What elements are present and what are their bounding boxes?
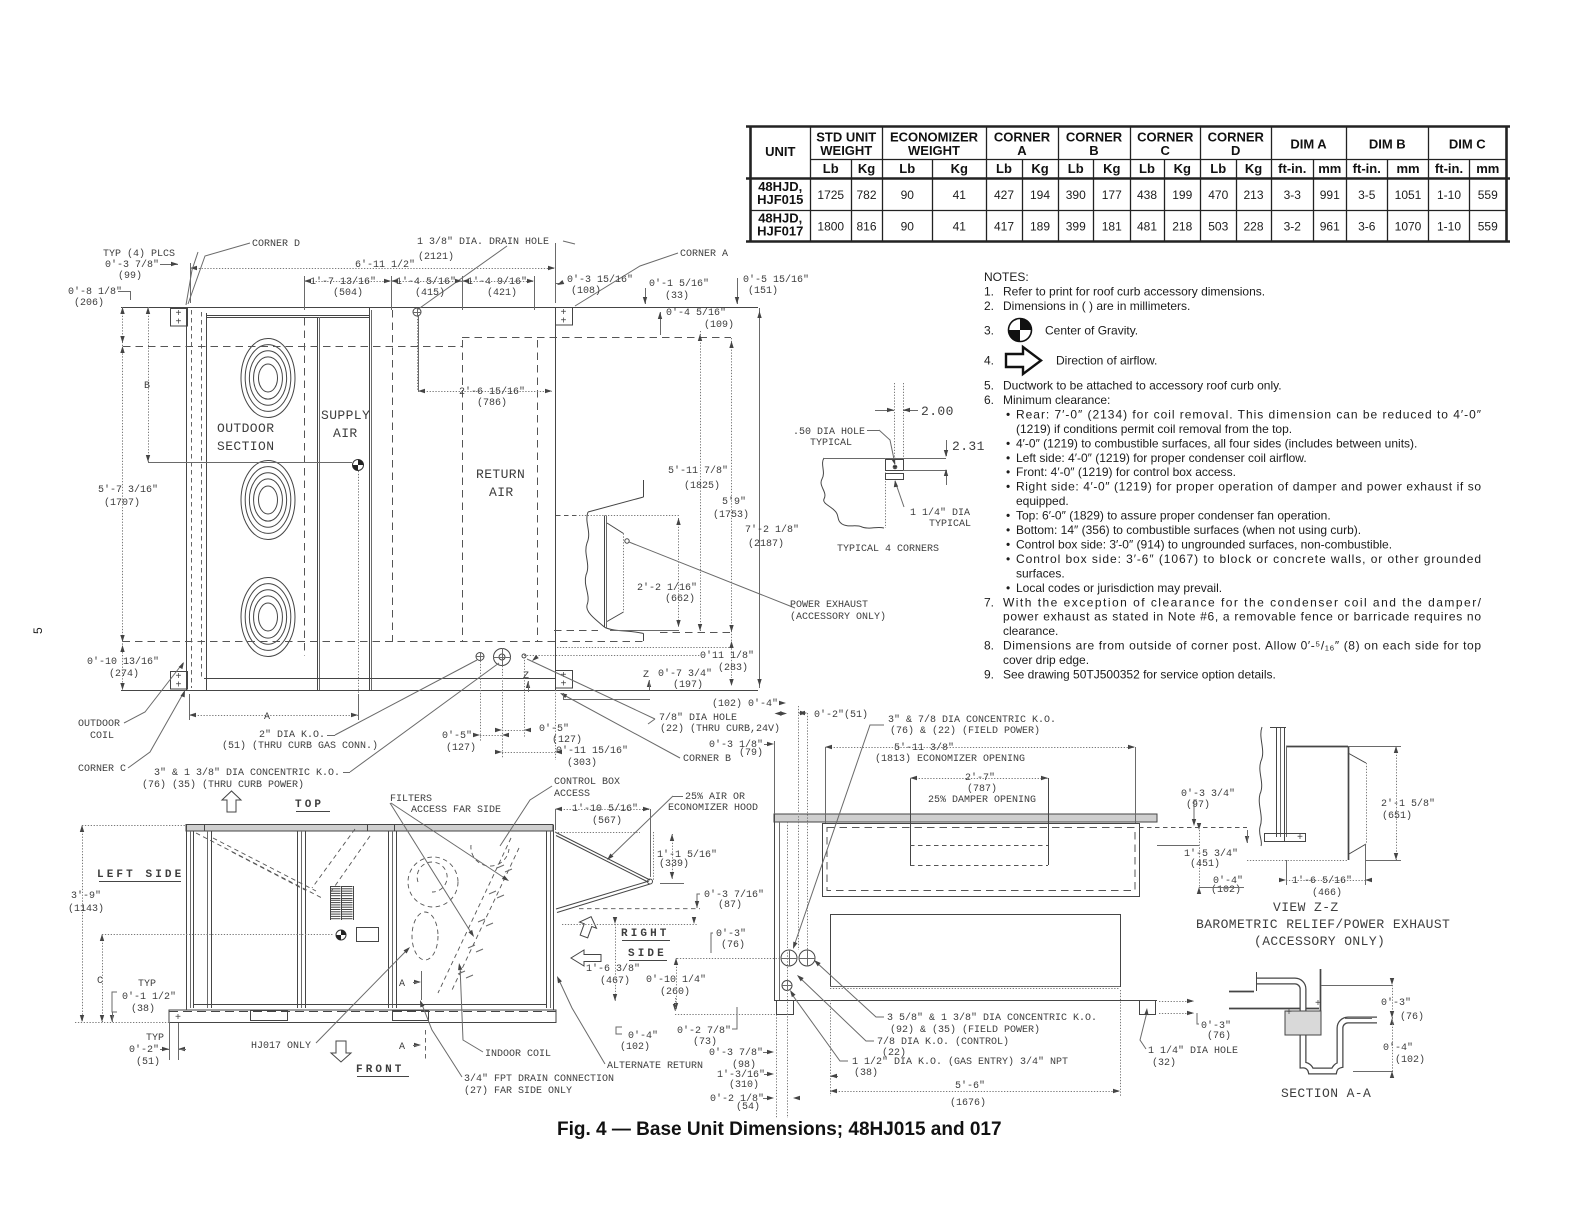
- svg-text:RIGHT: RIGHT: [621, 928, 670, 940]
- svg-text:559: 559: [1478, 188, 1498, 202]
- svg-text:0′-8 1/8″: 0′-8 1/8″: [68, 286, 122, 298]
- svg-text:(662): (662): [665, 593, 695, 605]
- svg-text:(339): (339): [659, 858, 689, 870]
- svg-text:(51) (THRU CURB GAS CONN.): (51) (THRU CURB GAS CONN.): [222, 740, 378, 752]
- svg-text:5′-7 3/16″: 5′-7 3/16″: [98, 484, 158, 496]
- svg-text:SUPPLY: SUPPLY: [321, 408, 370, 423]
- svg-text:Kg: Kg: [951, 161, 968, 176]
- svg-text:(33): (33): [665, 290, 689, 302]
- svg-text:3″ & 7/8 DIA CONCENTRIC K.O.: 3″ & 7/8 DIA CONCENTRIC K.O.: [888, 714, 1056, 726]
- svg-text:(787): (787): [967, 783, 997, 795]
- svg-text:cover drip edge.: cover drip edge.: [1003, 653, 1089, 667]
- svg-text:C: C: [97, 976, 103, 987]
- svg-text:5′-6″: 5′-6″: [955, 1080, 985, 1092]
- svg-text:•: •: [1006, 407, 1010, 421]
- svg-text:WEIGHT: WEIGHT: [820, 143, 872, 158]
- svg-text:AIR: AIR: [489, 485, 514, 500]
- svg-text:7/8″ DIA HOLE: 7/8″ DIA HOLE: [659, 712, 737, 724]
- svg-text:(ACCESSORY ONLY): (ACCESSORY ONLY): [790, 611, 886, 623]
- svg-text:Bottom: 14″ (356) to combustib: Bottom: 14″ (356) to combustible surface…: [1016, 523, 1361, 537]
- svg-text:VIEW Z-Z: VIEW Z-Z: [1273, 900, 1339, 915]
- svg-text:(504): (504): [333, 287, 363, 299]
- svg-text:(2187): (2187): [748, 538, 784, 550]
- svg-text:5′-11 3/8″: 5′-11 3/8″: [894, 742, 954, 754]
- svg-text:5.: 5.: [984, 379, 994, 393]
- svg-text:•: •: [1006, 509, 1010, 523]
- svg-text:B: B: [1089, 143, 1098, 158]
- svg-text:427: 427: [994, 188, 1014, 202]
- svg-text:0′-4″: 0′-4″: [628, 1030, 658, 1042]
- svg-text:3 5/8″ & 1 3/8″ DIA CONCENTRIC: 3 5/8″ & 1 3/8″ DIA CONCENTRIC K.O.: [887, 1012, 1097, 1024]
- svg-text:RETURN: RETURN: [476, 467, 525, 482]
- svg-text:(76) & (22) (FIELD POWER): (76) & (22) (FIELD POWER): [890, 725, 1040, 737]
- svg-text:0′-1 1/2″: 0′-1 1/2″: [122, 991, 176, 1003]
- svg-text:(51): (51): [136, 1056, 160, 1068]
- svg-text:3′-9″: 3′-9″: [71, 890, 101, 902]
- svg-text:(1143): (1143): [68, 903, 104, 915]
- svg-text:961: 961: [1320, 220, 1340, 234]
- svg-text:Front: 4′-0″ (1219) for contro: Front: 4′-0″ (1219) for control box acce…: [1016, 465, 1236, 479]
- svg-text:•: •: [1006, 465, 1010, 479]
- svg-text:(38): (38): [854, 1067, 878, 1079]
- svg-text:199: 199: [1172, 188, 1192, 202]
- svg-text:SECTION A-A: SECTION A-A: [1281, 1086, 1371, 1101]
- svg-text:1-10: 1-10: [1437, 220, 1461, 234]
- svg-text:Kg: Kg: [1103, 161, 1120, 176]
- svg-text:4′-0″ (1219) to combustible su: 4′-0″ (1219) to combustible surfaces, al…: [1016, 436, 1417, 450]
- svg-text:6.: 6.: [984, 393, 994, 407]
- svg-text:ECONOMIZER HOOD: ECONOMIZER HOOD: [668, 803, 758, 814]
- svg-text:1 1/4″ DIA: 1 1/4″ DIA: [910, 507, 970, 519]
- svg-text:438: 438: [1137, 188, 1157, 202]
- svg-text:1 1/2″ DIA K.O. (GAS ENTRY) 3: 1 1/2″ DIA K.O. (GAS ENTRY) 3/4″ NPT: [852, 1056, 1068, 1068]
- svg-text:Lb: Lb: [1068, 161, 1084, 176]
- svg-text:(151): (151): [748, 285, 778, 297]
- svg-text:(92) & (35) (FIELD POWER): (92) & (35) (FIELD POWER): [890, 1024, 1040, 1036]
- svg-text:NOTES:: NOTES:: [984, 270, 1029, 284]
- svg-text:(415): (415): [415, 287, 445, 299]
- svg-text:•: •: [1006, 581, 1010, 595]
- svg-text:(651): (651): [1382, 810, 1412, 822]
- svg-text:3-3: 3-3: [1284, 188, 1302, 202]
- svg-text:1′-6 5/16″: 1′-6 5/16″: [1292, 875, 1352, 887]
- svg-text:•: •: [1006, 552, 1010, 566]
- svg-text:(109): (109): [704, 319, 734, 331]
- svg-text:(97): (97): [1186, 799, 1210, 811]
- svg-text:(466): (466): [1312, 887, 1342, 899]
- svg-text:181: 181: [1102, 220, 1122, 234]
- svg-text:(1219) if conditions permit co: (1219) if conditions permit coil removal…: [1016, 422, 1292, 436]
- svg-text:2′-6 15/16″: 2′-6 15/16″: [459, 386, 525, 398]
- svg-text:3/4″ FPT DRAIN CONNECTION: 3/4″ FPT DRAIN CONNECTION: [464, 1073, 614, 1085]
- svg-text:Lb: Lb: [899, 161, 915, 176]
- svg-text:Direction of airflow.: Direction of airflow.: [1056, 354, 1157, 368]
- svg-text:5′9″: 5′9″: [722, 496, 746, 508]
- svg-text:0′-3 7/8″: 0′-3 7/8″: [105, 259, 159, 271]
- svg-text:7.: 7.: [984, 595, 994, 609]
- svg-text:(567): (567): [592, 815, 622, 827]
- svg-text:2.31: 2.31: [952, 439, 985, 454]
- svg-text:1070: 1070: [1395, 220, 1422, 234]
- svg-text:ft-in.: ft-in.: [1278, 161, 1306, 176]
- svg-text:+: +: [560, 317, 566, 328]
- svg-text:(102): (102): [620, 1041, 650, 1053]
- svg-text:(22) (THRU CURB,24V): (22) (THRU CURB,24V): [660, 723, 780, 735]
- svg-text:0′-10 13/16″: 0′-10 13/16″: [87, 656, 159, 668]
- svg-text:•: •: [1006, 436, 1010, 450]
- svg-text:Fig. 4 — Base Unit Dimensions;: Fig. 4 — Base Unit Dimensions; 48HJ015 a…: [557, 1119, 1002, 1140]
- svg-text:Center of Gravity.: Center of Gravity.: [1045, 324, 1138, 338]
- svg-text:SIDE: SIDE: [628, 948, 667, 960]
- svg-text:INDOOR COIL: INDOOR COIL: [485, 1049, 551, 1060]
- svg-text:(102): (102): [1395, 1054, 1425, 1066]
- svg-text:218: 218: [1172, 220, 1192, 234]
- svg-text:DIM C: DIM C: [1449, 137, 1486, 152]
- svg-text:clearance.: clearance.: [1003, 624, 1058, 638]
- svg-text:782: 782: [856, 188, 876, 202]
- svg-text:Kg: Kg: [1174, 161, 1191, 176]
- svg-text:FRONT: FRONT: [356, 1064, 405, 1076]
- svg-text:0′-5″: 0′-5″: [539, 723, 569, 735]
- svg-text:DIM B: DIM B: [1369, 137, 1406, 152]
- svg-text:559: 559: [1478, 220, 1498, 234]
- svg-text:ACCESS: ACCESS: [554, 789, 590, 800]
- svg-text:(108): (108): [571, 285, 601, 297]
- svg-text:WEIGHT: WEIGHT: [908, 143, 960, 158]
- svg-text:816: 816: [856, 220, 876, 234]
- svg-text:CORNER A: CORNER A: [680, 249, 728, 260]
- svg-text:FILTERS: FILTERS: [390, 794, 432, 805]
- svg-text:Lb: Lb: [1139, 161, 1155, 176]
- svg-text:•: •: [1006, 537, 1010, 551]
- svg-text:power exhaust as stated in Not: power exhaust as stated in Note #6, a re…: [1003, 610, 1481, 624]
- svg-text:•: •: [1006, 523, 1010, 537]
- svg-text:TYPICAL: TYPICAL: [929, 519, 971, 530]
- svg-text:Lb: Lb: [1210, 161, 1226, 176]
- svg-text:Rear: 7′-0″ (2134) for coil re: Rear: 7′-0″ (2134) for coil removal. Thi…: [1016, 407, 1482, 421]
- svg-text:0′-5 15/16″: 0′-5 15/16″: [743, 274, 809, 286]
- svg-text:(27) FAR SIDE ONLY: (27) FAR SIDE ONLY: [464, 1085, 572, 1097]
- svg-text:90: 90: [901, 220, 915, 234]
- svg-text:Refer to print for roof curb a: Refer to print for roof curb accessory d…: [1003, 285, 1265, 299]
- svg-text:2′-7″: 2′-7″: [965, 772, 995, 784]
- svg-text:CONTROL BOX: CONTROL BOX: [554, 777, 620, 788]
- svg-text:(127): (127): [446, 742, 476, 754]
- svg-text:2.00: 2.00: [921, 404, 954, 419]
- svg-text:mm: mm: [1396, 161, 1419, 176]
- svg-text:Lb: Lb: [823, 161, 839, 176]
- svg-text:(76): (76): [721, 939, 745, 951]
- svg-text:D: D: [1231, 143, 1240, 158]
- svg-text:LEFT SIDE: LEFT SIDE: [97, 869, 184, 881]
- svg-text:(786): (786): [477, 397, 507, 409]
- svg-text:2.: 2.: [984, 299, 994, 313]
- svg-text:AIR: AIR: [333, 426, 358, 441]
- svg-text:TYPICAL 4 CORNERS: TYPICAL 4 CORNERS: [837, 544, 939, 555]
- svg-text:+: +: [1315, 999, 1321, 1010]
- svg-text:+: +: [175, 681, 181, 692]
- svg-text:(32): (32): [1152, 1057, 1176, 1069]
- svg-text:B: B: [144, 381, 150, 392]
- svg-text:(87): (87): [718, 899, 742, 911]
- svg-text:(206): (206): [74, 297, 104, 309]
- svg-text:177: 177: [1102, 188, 1122, 202]
- svg-text:Z: Z: [643, 670, 649, 681]
- svg-text:3.: 3.: [984, 324, 994, 338]
- svg-text:CORNER B: CORNER B: [683, 754, 731, 765]
- svg-text:7/8 DIA K.O. (CONTROL): 7/8 DIA K.O. (CONTROL): [877, 1036, 1009, 1048]
- svg-text:1′-6 3/8″: 1′-6 3/8″: [586, 963, 640, 975]
- svg-text:(197): (197): [673, 679, 703, 691]
- svg-text:8.: 8.: [984, 639, 994, 653]
- svg-text:(79): (79): [739, 747, 763, 759]
- svg-text:A: A: [264, 712, 270, 723]
- svg-text:C: C: [1161, 143, 1171, 158]
- svg-text:0′-3 3/4″: 0′-3 3/4″: [1181, 788, 1235, 800]
- svg-text:mm: mm: [1318, 161, 1341, 176]
- svg-text:2′-1 5/8″: 2′-1 5/8″: [1381, 798, 1435, 810]
- svg-text:1′-4 9/16″: 1′-4 9/16″: [467, 276, 527, 288]
- svg-text:Minimum clearance:: Minimum clearance:: [1003, 393, 1110, 407]
- svg-text:COIL: COIL: [90, 731, 114, 742]
- svg-text:90: 90: [901, 188, 915, 202]
- svg-text:194: 194: [1030, 188, 1050, 202]
- svg-text:(76): (76): [1400, 1011, 1424, 1023]
- svg-text:(2121): (2121): [418, 251, 454, 263]
- svg-text:(1676): (1676): [950, 1097, 986, 1109]
- svg-text:1 1/4″ DIA HOLE: 1 1/4″ DIA HOLE: [1148, 1045, 1238, 1057]
- svg-text:470: 470: [1208, 188, 1228, 202]
- svg-text:(99): (99): [118, 270, 142, 282]
- svg-text:TYP (4) PLCS: TYP (4) PLCS: [103, 248, 175, 260]
- svg-text:Ductwork to be attached to acc: Ductwork to be attached to accessory roo…: [1003, 379, 1282, 393]
- svg-text:(1825): (1825): [684, 480, 720, 492]
- svg-text:Control box side: 3′-0″ (914): Control box side: 3′-0″ (914) to ungroun…: [1016, 537, 1392, 551]
- svg-text:mm: mm: [1476, 161, 1499, 176]
- svg-text:0′-1 5/16″: 0′-1 5/16″: [649, 278, 709, 290]
- svg-text:2″ DIA K.O.: 2″ DIA K.O.: [259, 729, 325, 741]
- svg-text:(76) (35) (THRU CURB POWER: (76) (35) (THRU CURB POWER): [142, 779, 304, 791]
- svg-text:1051: 1051: [1395, 188, 1422, 202]
- svg-text:(303): (303): [567, 757, 597, 769]
- svg-text:1′-7 13/16″: 1′-7 13/16″: [310, 276, 376, 288]
- svg-text:481: 481: [1137, 220, 1157, 234]
- svg-text:390: 390: [1066, 188, 1086, 202]
- svg-text:189: 189: [1030, 220, 1050, 234]
- svg-text:1.: 1.: [984, 285, 994, 299]
- svg-text:BAROMETRIC RELIEF/POWER EXHAUS: BAROMETRIC RELIEF/POWER EXHAUST: [1196, 917, 1450, 932]
- svg-text:Dimensions are from outside of: Dimensions are from outside of corner po…: [1003, 639, 1481, 653]
- svg-text:(73): (73): [693, 1036, 717, 1048]
- svg-text:(310): (310): [729, 1079, 759, 1091]
- svg-text:+: +: [1297, 833, 1303, 844]
- svg-text:213: 213: [1243, 188, 1263, 202]
- svg-text:(283): (283): [718, 662, 748, 674]
- svg-text:SECTION: SECTION: [217, 439, 274, 454]
- svg-text:0′-2 7/8″: 0′-2 7/8″: [677, 1025, 731, 1037]
- svg-text:Top: 6′-0″ (1829) to assure pr: Top: 6′-0″ (1829) to assure proper conde…: [1016, 509, 1331, 523]
- svg-text:503: 503: [1208, 220, 1228, 234]
- svg-text:ACCESS FAR SIDE: ACCESS FAR SIDE: [411, 805, 501, 816]
- svg-text:1725: 1725: [817, 188, 844, 202]
- svg-text:ALTERNATE RETURN: ALTERNATE RETURN: [607, 1061, 703, 1072]
- svg-text:(38): (38): [131, 1003, 155, 1015]
- svg-text:(127): (127): [552, 734, 582, 746]
- svg-text:228: 228: [1243, 220, 1263, 234]
- svg-text:TYPICAL: TYPICAL: [810, 438, 852, 449]
- svg-text:0′-5″: 0′-5″: [442, 730, 472, 742]
- svg-text:0′-4 5/16″: 0′-4 5/16″: [666, 307, 726, 319]
- svg-text:UNIT: UNIT: [765, 144, 795, 159]
- svg-text:(451): (451): [1190, 858, 1220, 870]
- svg-text:3-5: 3-5: [1358, 188, 1376, 202]
- svg-text:With the exception of clearanc: With the exception of clearance for the …: [1003, 595, 1482, 609]
- svg-text:(ACCESSORY ONLY): (ACCESSORY ONLY): [1254, 934, 1385, 949]
- svg-text:5: 5: [31, 627, 45, 634]
- svg-text:(260): (260): [660, 986, 690, 998]
- svg-text:991: 991: [1320, 188, 1340, 202]
- svg-text:Kg: Kg: [858, 161, 875, 176]
- svg-text:1-10: 1-10: [1437, 188, 1461, 202]
- svg-text:TOP: TOP: [295, 799, 324, 811]
- svg-text:HJF017: HJF017: [757, 224, 803, 239]
- svg-text:CORNER D: CORNER D: [252, 239, 300, 250]
- svg-text:1800: 1800: [817, 220, 844, 234]
- svg-text:Control box side: 3′-6″ (1067): Control box side: 3′-6″ (1067) to block …: [1016, 552, 1481, 566]
- svg-text:(1707): (1707): [104, 497, 140, 509]
- svg-text:0′-2″(51): 0′-2″(51): [814, 709, 868, 721]
- svg-text:(54): (54): [736, 1101, 760, 1113]
- svg-text:0′-2″: 0′-2″: [129, 1044, 159, 1056]
- svg-text:surfaces.: surfaces.: [1016, 566, 1065, 580]
- svg-text:ft-in.: ft-in.: [1353, 161, 1381, 176]
- svg-text:Z: Z: [523, 671, 529, 682]
- svg-text:1 3/8″ DIA. DRAIN HOLE: 1 3/8″ DIA. DRAIN HOLE: [417, 236, 549, 248]
- svg-text:41: 41: [953, 188, 967, 202]
- svg-text:A: A: [1017, 143, 1027, 158]
- svg-text:(1753): (1753): [713, 509, 749, 521]
- svg-text:OUTDOOR: OUTDOOR: [217, 421, 274, 436]
- svg-text:4.: 4.: [984, 354, 994, 368]
- svg-text:2′-2 1/16″: 2′-2 1/16″: [637, 582, 697, 594]
- svg-text:25% AIR OR: 25% AIR OR: [685, 792, 745, 803]
- svg-text:(102): (102): [1211, 884, 1241, 896]
- svg-text:A: A: [399, 979, 405, 990]
- svg-text:1′-4 5/16″: 1′-4 5/16″: [396, 276, 456, 288]
- svg-text:(274): (274): [109, 668, 139, 680]
- svg-text:(421): (421): [487, 287, 517, 299]
- svg-text:1′-10 5/16″: 1′-10 5/16″: [572, 803, 638, 815]
- svg-text:OUTDOOR: OUTDOOR: [78, 719, 120, 730]
- svg-text:(76): (76): [1207, 1030, 1231, 1042]
- svg-text:TYP: TYP: [138, 979, 156, 990]
- svg-text:+: +: [1286, 1008, 1292, 1019]
- svg-text:CORNER C: CORNER C: [78, 764, 126, 775]
- svg-text:Dimensions in ( ) are in milli: Dimensions in ( ) are in millimeters.: [1003, 299, 1190, 313]
- svg-text:Lb: Lb: [996, 161, 1012, 176]
- svg-text:Kg: Kg: [1031, 161, 1048, 176]
- svg-text:(1813) ECONOMIZER OPENING: (1813) ECONOMIZER OPENING: [875, 753, 1025, 765]
- svg-text:Local codes or jurisdiction ma: Local codes or jurisdiction may prevail.: [1016, 581, 1222, 595]
- svg-text:Right side: 4′-0″ (1219) for p: Right side: 4′-0″ (1219) for proper oper…: [1016, 480, 1481, 494]
- svg-text:3″ & 1 3/8″ DIA CONCENTRIC K.O: 3″ & 1 3/8″ DIA CONCENTRIC K.O.: [154, 767, 340, 779]
- svg-text:TYP: TYP: [146, 1033, 164, 1044]
- svg-text:0′-3 7/8″: 0′-3 7/8″: [709, 1047, 763, 1059]
- svg-text:0′-11 15/16″: 0′-11 15/16″: [556, 745, 628, 757]
- svg-text:equipped.: equipped.: [1016, 494, 1069, 508]
- svg-text:0′-4″: 0′-4″: [1383, 1042, 1413, 1054]
- svg-text:0′-3 15/16″: 0′-3 15/16″: [567, 274, 633, 286]
- svg-text:Left side: 4′-0″ (1219) for pr: Left side: 4′-0″ (1219) for proper conde…: [1016, 451, 1307, 465]
- svg-text:•: •: [1006, 480, 1010, 494]
- svg-text:0′11 1/8″: 0′11 1/8″: [700, 650, 754, 662]
- svg-text:25% DAMPER OPENING: 25% DAMPER OPENING: [928, 795, 1036, 806]
- svg-text:3-6: 3-6: [1358, 220, 1376, 234]
- svg-text:417: 417: [994, 220, 1014, 234]
- svg-text:7′-2 1/8″: 7′-2 1/8″: [745, 524, 799, 536]
- svg-text:6′-11 1/2″: 6′-11 1/2″: [355, 259, 415, 271]
- svg-text:DIM A: DIM A: [1290, 137, 1327, 152]
- svg-text:ft-in.: ft-in.: [1435, 161, 1463, 176]
- svg-text:+: +: [560, 680, 566, 691]
- svg-text:9.: 9.: [984, 668, 994, 682]
- svg-text:Kg: Kg: [1245, 161, 1262, 176]
- svg-text:399: 399: [1066, 220, 1086, 234]
- svg-text:HJF015: HJF015: [757, 192, 803, 207]
- svg-text:POWER EXHAUST: POWER EXHAUST: [790, 600, 868, 611]
- svg-text:+: +: [175, 318, 181, 329]
- svg-text:See drawing 50TJ500352 for ser: See drawing 50TJ500352 for service optio…: [1003, 668, 1276, 682]
- svg-text:A: A: [399, 1042, 405, 1053]
- svg-text:41: 41: [953, 220, 967, 234]
- svg-text:5′-11 7/8″: 5′-11 7/8″: [668, 465, 728, 477]
- svg-text:HJ017 ONLY: HJ017 ONLY: [251, 1041, 311, 1052]
- svg-text:+: +: [175, 1013, 181, 1024]
- svg-text:.50 DIA HOLE: .50 DIA HOLE: [793, 427, 865, 438]
- svg-text:3-2: 3-2: [1284, 220, 1302, 234]
- svg-text:(102) 0′-4″: (102) 0′-4″: [712, 698, 778, 710]
- svg-text:0′-3″: 0′-3″: [1381, 997, 1411, 1009]
- svg-text:•: •: [1006, 451, 1010, 465]
- svg-text:0′-3″: 0′-3″: [716, 928, 746, 940]
- svg-text:0′-7 3/4″: 0′-7 3/4″: [658, 668, 712, 680]
